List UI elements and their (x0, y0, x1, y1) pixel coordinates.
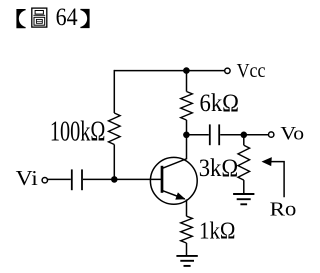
svg-text:Vcc: Vcc (237, 60, 266, 82)
svg-text:Ro: Ro (270, 199, 297, 221)
svg-text:Vi: Vi (16, 166, 38, 190)
svg-text:Vo: Vo (280, 124, 304, 145)
svg-text:6kΩ: 6kΩ (200, 88, 240, 117)
svg-text:3kΩ: 3kΩ (199, 153, 239, 182)
svg-text:64: 64 (56, 4, 78, 31)
svg-text:1kΩ: 1kΩ (199, 218, 236, 245)
svg-text:100kΩ: 100kΩ (50, 116, 106, 147)
